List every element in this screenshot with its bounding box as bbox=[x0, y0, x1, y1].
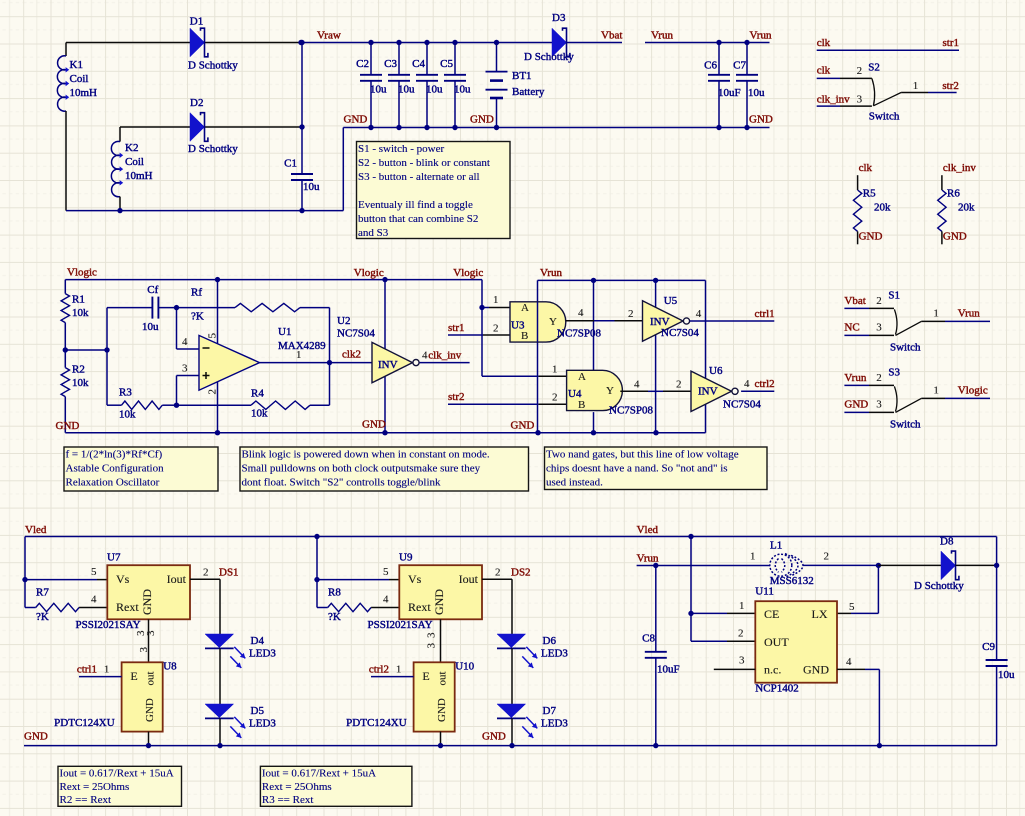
svg-text:Small pulldowns on both clock: Small pulldowns on both clock outputsmak… bbox=[242, 462, 481, 474]
svg-text:str1: str1 bbox=[448, 322, 465, 334]
svg-text:Vrun: Vrun bbox=[637, 553, 659, 565]
svg-text:LED3: LED3 bbox=[541, 718, 568, 730]
svg-text:Vs: Vs bbox=[116, 572, 130, 586]
svg-text:Switch: Switch bbox=[890, 419, 921, 431]
svg-text:S1 - switch - power: S1 - switch - power bbox=[358, 143, 444, 155]
svg-text:U2: U2 bbox=[337, 315, 350, 327]
svg-text:2: 2 bbox=[824, 551, 830, 563]
svg-text:n.c.: n.c. bbox=[764, 663, 781, 677]
svg-text:R5: R5 bbox=[863, 187, 876, 199]
svg-text:dont float. Switch "S2" contro: dont float. Switch "S2" controlls toggle… bbox=[242, 476, 442, 488]
svg-text:C8: C8 bbox=[642, 632, 655, 644]
svg-text:5: 5 bbox=[849, 601, 855, 613]
svg-text:DS1: DS1 bbox=[219, 567, 239, 579]
svg-text:Coil: Coil bbox=[125, 156, 144, 168]
svg-text:A: A bbox=[578, 371, 586, 383]
svg-text:Vlogic: Vlogic bbox=[67, 267, 97, 279]
svg-text:NCP1402: NCP1402 bbox=[755, 682, 798, 694]
svg-text:clk_inv: clk_inv bbox=[428, 350, 461, 362]
svg-text:f = 1/(2*ln(3)*Rf*Cf): f = 1/(2*ln(3)*Rf*Cf) bbox=[66, 448, 163, 460]
svg-text:LED3: LED3 bbox=[249, 648, 276, 660]
svg-text:3: 3 bbox=[876, 399, 882, 411]
svg-text:GND: GND bbox=[432, 589, 446, 615]
svg-text:ctrl2: ctrl2 bbox=[755, 378, 775, 390]
svg-text:D7: D7 bbox=[543, 705, 557, 717]
svg-text:Y: Y bbox=[549, 316, 557, 328]
svg-text:2: 2 bbox=[552, 391, 558, 403]
svg-text:1: 1 bbox=[750, 551, 756, 563]
svg-text:1: 1 bbox=[739, 600, 745, 612]
svg-text:Switch: Switch bbox=[890, 342, 921, 354]
svg-text:NC7S04: NC7S04 bbox=[337, 327, 375, 339]
svg-text:ctrl1: ctrl1 bbox=[755, 308, 775, 320]
svg-text:GND: GND bbox=[482, 731, 506, 743]
svg-text:10u: 10u bbox=[398, 84, 415, 96]
svg-text:D6: D6 bbox=[543, 635, 557, 647]
svg-text:out: out bbox=[145, 671, 157, 685]
svg-text:Switch: Switch bbox=[869, 110, 900, 122]
svg-text:clk: clk bbox=[817, 64, 831, 76]
svg-text:D4: D4 bbox=[251, 635, 265, 647]
svg-text:clk2: clk2 bbox=[342, 349, 361, 361]
svg-text:DS2: DS2 bbox=[511, 567, 531, 579]
svg-text:3: 3 bbox=[182, 363, 188, 375]
svg-text:10u: 10u bbox=[998, 669, 1015, 681]
svg-text:Blink logic is powered down wh: Blink logic is powered down when in cons… bbox=[242, 448, 490, 460]
svg-text:C6: C6 bbox=[704, 60, 717, 72]
svg-text:GND: GND bbox=[749, 114, 773, 126]
svg-text:S3: S3 bbox=[888, 367, 900, 379]
svg-text:10k: 10k bbox=[72, 377, 89, 389]
svg-text:Vlogic: Vlogic bbox=[354, 267, 384, 279]
svg-text:Iout: Iout bbox=[167, 572, 187, 586]
svg-text:1: 1 bbox=[493, 294, 499, 306]
svg-text:2: 2 bbox=[493, 323, 499, 335]
svg-text:NC7S04: NC7S04 bbox=[723, 399, 761, 411]
svg-text:Vrun: Vrun bbox=[540, 267, 562, 279]
svg-text:C5: C5 bbox=[440, 58, 453, 70]
svg-text:Vrun: Vrun bbox=[750, 30, 772, 42]
svg-text:GND: GND bbox=[362, 419, 386, 431]
svg-text:E: E bbox=[130, 669, 137, 683]
svg-text:10u: 10u bbox=[303, 181, 320, 193]
svg-text:Vrun: Vrun bbox=[958, 308, 980, 320]
svg-text:C9: C9 bbox=[982, 641, 995, 653]
svg-text:10k: 10k bbox=[251, 408, 268, 420]
svg-text:R6: R6 bbox=[947, 187, 960, 199]
svg-text:4: 4 bbox=[634, 378, 640, 390]
svg-text:LED3: LED3 bbox=[249, 718, 276, 730]
svg-text:NC7SP08: NC7SP08 bbox=[557, 327, 602, 339]
svg-text:Rext = 25Ohms: Rext = 25Ohms bbox=[60, 781, 130, 793]
svg-text:?K: ?K bbox=[191, 311, 204, 323]
svg-text:LX: LX bbox=[812, 607, 828, 621]
svg-text:U9: U9 bbox=[399, 552, 413, 564]
svg-text:U6: U6 bbox=[709, 365, 723, 377]
svg-text:A: A bbox=[521, 302, 529, 314]
svg-text:NC7S04: NC7S04 bbox=[661, 327, 699, 339]
svg-text:NC: NC bbox=[844, 322, 859, 334]
svg-text:Vrun: Vrun bbox=[651, 30, 673, 42]
svg-text:MAX4289: MAX4289 bbox=[278, 340, 326, 352]
svg-text:BT1: BT1 bbox=[512, 70, 532, 82]
svg-text:2: 2 bbox=[628, 308, 634, 320]
svg-text:4: 4 bbox=[182, 336, 188, 348]
svg-text:5: 5 bbox=[207, 333, 219, 339]
svg-text:3: 3 bbox=[426, 643, 438, 649]
svg-text:clk: clk bbox=[817, 37, 831, 49]
svg-text:PSSI2021SAY: PSSI2021SAY bbox=[368, 619, 433, 631]
svg-text:GND: GND bbox=[511, 420, 535, 432]
svg-text:D8: D8 bbox=[940, 536, 954, 548]
svg-text:4: 4 bbox=[91, 593, 97, 605]
svg-text:str2: str2 bbox=[448, 391, 465, 403]
svg-text:10u: 10u bbox=[142, 321, 159, 333]
svg-text:3: 3 bbox=[426, 632, 438, 638]
svg-text:ctrl1: ctrl1 bbox=[77, 663, 97, 675]
svg-text:D Schottky: D Schottky bbox=[188, 143, 238, 155]
svg-text:Iout: Iout bbox=[459, 572, 479, 586]
svg-text:E: E bbox=[422, 669, 429, 683]
svg-text:GND: GND bbox=[844, 399, 868, 411]
svg-text:GND: GND bbox=[470, 114, 494, 126]
svg-text:3: 3 bbox=[145, 630, 157, 636]
svg-text:2: 2 bbox=[676, 378, 682, 390]
svg-text:10u: 10u bbox=[748, 87, 765, 99]
svg-text:Vbat: Vbat bbox=[844, 295, 865, 307]
svg-text:clk_inv: clk_inv bbox=[817, 94, 850, 106]
svg-text:GND: GND bbox=[943, 231, 967, 243]
svg-text:Rext = 25Ohms: Rext = 25Ohms bbox=[262, 781, 332, 793]
svg-text:1: 1 bbox=[296, 349, 302, 361]
svg-text:U7: U7 bbox=[107, 552, 121, 564]
svg-text:3: 3 bbox=[857, 94, 863, 106]
svg-text:C3: C3 bbox=[384, 58, 397, 70]
svg-text:Iout = 0.617/Rext + 15uA: Iout = 0.617/Rext + 15uA bbox=[262, 768, 376, 780]
svg-text:10uF: 10uF bbox=[657, 663, 680, 675]
svg-text:S2 - button - blink or constan: S2 - button - blink or constant bbox=[358, 157, 490, 169]
svg-text:Rext: Rext bbox=[116, 600, 139, 614]
svg-text:2: 2 bbox=[857, 65, 863, 77]
svg-text:1: 1 bbox=[913, 80, 919, 92]
svg-text:2: 2 bbox=[203, 567, 209, 579]
svg-text:GND: GND bbox=[859, 231, 883, 243]
svg-text:Vled: Vled bbox=[25, 524, 47, 536]
svg-text:3: 3 bbox=[739, 655, 745, 667]
svg-text:20k: 20k bbox=[958, 202, 975, 214]
svg-text:NC7SP08: NC7SP08 bbox=[609, 405, 654, 417]
svg-text:U5: U5 bbox=[664, 295, 678, 307]
svg-text:1: 1 bbox=[933, 385, 939, 397]
svg-text:D Schottky: D Schottky bbox=[524, 51, 574, 63]
svg-text:3: 3 bbox=[876, 322, 882, 334]
svg-text:4: 4 bbox=[578, 307, 584, 319]
svg-text:str1: str1 bbox=[943, 37, 960, 49]
svg-text:GND: GND bbox=[24, 731, 48, 743]
svg-text:GND: GND bbox=[140, 589, 154, 615]
svg-text:4: 4 bbox=[422, 350, 428, 362]
svg-text:R1: R1 bbox=[72, 294, 85, 306]
svg-text:2: 2 bbox=[206, 389, 218, 395]
svg-text:Vrun: Vrun bbox=[844, 372, 866, 384]
svg-text:1: 1 bbox=[933, 308, 939, 320]
svg-text:5: 5 bbox=[383, 566, 389, 578]
svg-text:B: B bbox=[521, 330, 528, 342]
svg-text:4: 4 bbox=[846, 656, 852, 668]
svg-text:ctrl2: ctrl2 bbox=[369, 663, 389, 675]
svg-text:Iout = 0.617/Rext + 15uA: Iout = 0.617/Rext + 15uA bbox=[60, 768, 174, 780]
svg-text:and S3: and S3 bbox=[358, 227, 389, 239]
svg-text:C7: C7 bbox=[733, 60, 746, 72]
svg-text:chips doesnt have a nand. So ": chips doesnt have a nand. So "not and" i… bbox=[546, 462, 728, 474]
svg-text:D Schottky: D Schottky bbox=[188, 60, 238, 72]
svg-text:Two nand gates, but this line: Two nand gates, but this line of low vol… bbox=[546, 448, 739, 460]
svg-text:R8: R8 bbox=[328, 587, 341, 599]
svg-text:R3: R3 bbox=[119, 387, 132, 399]
svg-text:PSSI2021SAY: PSSI2021SAY bbox=[76, 619, 141, 631]
svg-text:U11: U11 bbox=[755, 586, 774, 598]
svg-text:Coil: Coil bbox=[70, 73, 89, 85]
svg-text:LED3: LED3 bbox=[541, 648, 568, 660]
svg-text:Battery: Battery bbox=[512, 86, 545, 98]
svg-text:U10: U10 bbox=[455, 661, 474, 673]
svg-text:3: 3 bbox=[138, 647, 150, 653]
svg-text:2: 2 bbox=[876, 295, 882, 307]
svg-text:Y: Y bbox=[606, 385, 614, 397]
svg-text:R7: R7 bbox=[36, 587, 49, 599]
svg-text:K1: K1 bbox=[70, 59, 83, 71]
svg-text:10k: 10k bbox=[119, 409, 136, 421]
svg-text:GND: GND bbox=[344, 114, 368, 126]
svg-text:L1: L1 bbox=[770, 539, 782, 551]
svg-text:1: 1 bbox=[552, 364, 558, 376]
svg-text:20k: 20k bbox=[874, 202, 891, 214]
svg-text:OUT: OUT bbox=[764, 635, 789, 649]
svg-text:R2: R2 bbox=[72, 364, 85, 376]
svg-text:4: 4 bbox=[744, 378, 750, 390]
svg-text:GND: GND bbox=[56, 420, 80, 432]
svg-text:?K: ?K bbox=[328, 611, 341, 623]
svg-text:1: 1 bbox=[104, 663, 110, 675]
svg-text:INV: INV bbox=[378, 359, 398, 371]
svg-text:CE: CE bbox=[764, 607, 779, 621]
svg-text:button that can combine S2: button that can combine S2 bbox=[358, 213, 478, 225]
svg-text:D2: D2 bbox=[190, 97, 203, 109]
svg-text:10uF: 10uF bbox=[718, 87, 741, 99]
svg-text:clk: clk bbox=[859, 162, 873, 174]
svg-text:R2 == Rext: R2 == Rext bbox=[60, 794, 112, 806]
svg-text:10u: 10u bbox=[454, 84, 471, 96]
svg-text:4: 4 bbox=[696, 308, 702, 320]
svg-text:2: 2 bbox=[495, 567, 501, 579]
svg-text:Vlogic: Vlogic bbox=[453, 267, 483, 279]
svg-text:10mH: 10mH bbox=[70, 87, 98, 99]
svg-text:S2: S2 bbox=[868, 62, 880, 74]
svg-text:out: out bbox=[437, 671, 449, 685]
svg-text:GND: GND bbox=[144, 698, 156, 722]
svg-text:Astable Configuration: Astable Configuration bbox=[66, 462, 165, 474]
svg-text:GND: GND bbox=[436, 698, 448, 722]
svg-text:S3 - button - alternate or all: S3 - button - alternate or all bbox=[358, 171, 480, 183]
svg-text:Vs: Vs bbox=[408, 572, 422, 586]
svg-text:Eventualy ill find a toggle: Eventualy ill find a toggle bbox=[358, 199, 473, 211]
svg-text:10u: 10u bbox=[426, 84, 443, 96]
svg-text:D3: D3 bbox=[552, 12, 566, 24]
svg-text:D1: D1 bbox=[190, 16, 203, 28]
svg-text:Cf: Cf bbox=[147, 284, 158, 296]
svg-text:D Schottky: D Schottky bbox=[914, 580, 964, 592]
svg-text:GND: GND bbox=[803, 663, 829, 677]
svg-text:2: 2 bbox=[738, 628, 744, 640]
svg-text:Relaxation Oscillator: Relaxation Oscillator bbox=[66, 476, 160, 488]
svg-text:INV: INV bbox=[698, 386, 718, 398]
svg-text:PDTC124XU: PDTC124XU bbox=[346, 717, 407, 729]
svg-text:str2: str2 bbox=[942, 80, 959, 92]
svg-text:B: B bbox=[578, 399, 585, 411]
svg-text:5: 5 bbox=[91, 566, 97, 578]
svg-text:K2: K2 bbox=[125, 142, 138, 154]
svg-text:10mH: 10mH bbox=[125, 170, 153, 182]
svg-text:Rf: Rf bbox=[191, 287, 202, 299]
svg-text:MSS6132: MSS6132 bbox=[770, 575, 814, 587]
svg-text:Rext: Rext bbox=[408, 600, 431, 614]
svg-text:?K: ?K bbox=[36, 611, 49, 623]
svg-text:10k: 10k bbox=[72, 307, 89, 319]
svg-text:C2: C2 bbox=[356, 58, 369, 70]
svg-text:Vlogic: Vlogic bbox=[958, 385, 988, 397]
svg-text:C1: C1 bbox=[284, 158, 297, 170]
svg-text:U8: U8 bbox=[163, 661, 177, 673]
svg-text:clk_inv: clk_inv bbox=[943, 162, 976, 174]
svg-text:C4: C4 bbox=[412, 58, 425, 70]
svg-text:R3 == Rext: R3 == Rext bbox=[262, 794, 314, 806]
svg-text:Vled: Vled bbox=[637, 524, 659, 536]
svg-text:R4: R4 bbox=[251, 387, 264, 399]
svg-text:4: 4 bbox=[383, 593, 389, 605]
svg-text:U1: U1 bbox=[278, 326, 291, 338]
svg-text:1: 1 bbox=[396, 663, 402, 675]
svg-text:10u: 10u bbox=[370, 84, 387, 96]
svg-text:Vbat: Vbat bbox=[601, 30, 622, 42]
svg-text:D5: D5 bbox=[251, 705, 265, 717]
svg-text:PDTC124XU: PDTC124XU bbox=[54, 717, 115, 729]
svg-text:2: 2 bbox=[876, 372, 882, 384]
svg-text:Vraw: Vraw bbox=[317, 30, 341, 42]
svg-text:S1: S1 bbox=[888, 290, 900, 302]
svg-text:used instead.: used instead. bbox=[546, 476, 603, 488]
